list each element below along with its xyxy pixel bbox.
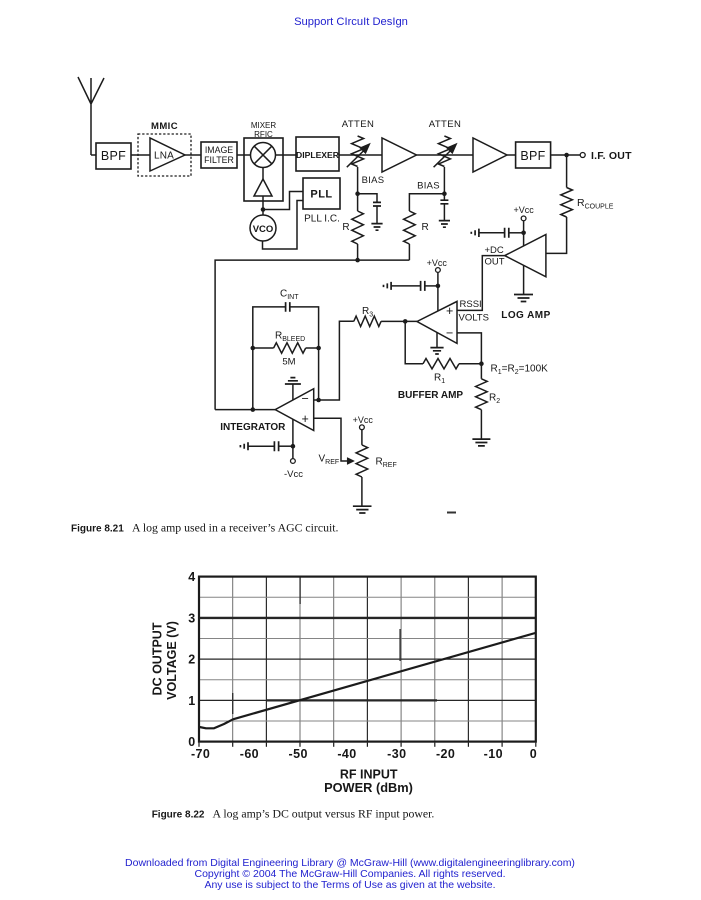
label +DC OUT (485, 245, 505, 267)
svg-text:Figure 8.22: Figure 8.22 (152, 810, 205, 821)
wire +Vcc to buffer amp (437, 272, 439, 311)
op-amp BUFFER AMP (398, 301, 464, 401)
capacitor (integrator bypass) (274, 441, 278, 451)
chart scan artifact strokes (233, 577, 400, 714)
wire mixer to diplexer (276, 154, 297, 156)
wire LO amp to VCO (262, 196, 264, 215)
wire bias node 2 to R 2 (409, 194, 444, 211)
svg-text:Support CIrcuIt DesIgn: Support CIrcuIt DesIgn (294, 16, 408, 28)
resistor R (bias 1) (342, 211, 363, 244)
wire diplexer to amp1 (339, 154, 382, 156)
resistor R (bias 2) (404, 211, 429, 244)
junction inverting input node (316, 398, 321, 403)
svg-text:LOG AMP: LOG AMP (501, 310, 550, 321)
chart x-axis title (324, 768, 413, 795)
wire PLL output to VCO (263, 201, 304, 250)
amplifier LNA (150, 138, 185, 171)
caption figure 8.21 (71, 521, 339, 535)
wire integrator bypass cap to ground (248, 445, 274, 447)
svg-text:BPF: BPF (520, 149, 545, 163)
junction feedback node (479, 361, 484, 366)
ground (integrator, inverted) (285, 378, 301, 384)
wire bias node 1 to R (357, 194, 359, 211)
power +Vcc (buffer amp) (427, 258, 448, 273)
wire +Vcc to log amp (523, 221, 525, 246)
junction +Vcc bypass node (log amp) (521, 231, 526, 236)
junction bias node 1 (355, 191, 360, 196)
svg-text:MMIC: MMIC (151, 121, 178, 132)
antenna (78, 77, 104, 155)
resistor R1 (423, 359, 459, 386)
svg-text:Any use is subject to the Term: Any use is subject to the Terms of Use a… (204, 879, 495, 891)
wire Rref to ground (361, 477, 363, 506)
wire feedback rail (Cint top) (253, 307, 319, 410)
svg-text:VOLTAGE (V): VOLTAGE (V) (165, 621, 179, 700)
scan artifact dash (447, 512, 456, 514)
svg-text:RFIC: RFIC (254, 130, 273, 139)
svg-text:+: + (446, 304, 453, 318)
wire buffer bypass cap to ground (391, 285, 421, 287)
svg-text:OUT: OUT (485, 256, 505, 267)
wire buffer amp to ground (436, 332, 438, 347)
wire amp2 to BPF2 (507, 154, 516, 156)
wire LO node to PLL input (263, 192, 303, 210)
ground (Rref) (353, 506, 372, 513)
junction bias node 2 (442, 191, 447, 196)
svg-text:-Vcc: -Vcc (284, 469, 303, 480)
svg-text:R: R (342, 222, 349, 233)
svg-text:BPF: BPF (101, 149, 126, 163)
wire mixer to LO amp (262, 168, 264, 180)
MIXER RFIC enclosure (244, 121, 283, 201)
chart x-axis labels (191, 747, 537, 761)
potentiometer RREF (356, 445, 397, 477)
chart major horizontal gridlines (199, 618, 536, 701)
wiper arrow into RREF (319, 454, 355, 467)
wire IF node to Rcouple (566, 157, 568, 188)
capacitor (buffer bypass) (421, 281, 425, 291)
wire +Vcc node to bypass cap (509, 232, 524, 234)
svg-text:RSSI: RSSI (460, 299, 482, 310)
op-amp INTEGRATOR (220, 389, 313, 434)
svg-text:PLL: PLL (310, 189, 332, 201)
svg-text:-10: -10 (484, 747, 503, 761)
wire cap to ground (376, 206, 378, 224)
page header running title (294, 16, 408, 28)
wire BPF2 to IF out terminal (551, 154, 581, 156)
wire R1 to feedback node (459, 363, 481, 365)
filter BPF (IF output) (516, 142, 551, 168)
svg-text:Figure 8.21: Figure 8.21 (71, 524, 124, 535)
label PLL I.C. (304, 214, 340, 225)
svg-text:CINT: CINT (280, 289, 299, 302)
wire integrator noninverting input (314, 418, 349, 461)
chart curve: DC output vs RF input (200, 633, 536, 728)
chart minor vertical gridlines (233, 577, 502, 742)
svg-text:ATTEN: ATTEN (429, 119, 461, 130)
svg-text:VOLTS: VOLTS (459, 313, 489, 324)
terminal I.F. OUT (580, 150, 632, 162)
svg-text:-60: -60 (240, 747, 259, 761)
svg-text:-50: -50 (289, 747, 308, 761)
wire image filter to mixer (237, 154, 251, 156)
power +Vcc (log amp) (513, 205, 534, 221)
svg-text:A log amp used in a receiver’s: A log amp used in a receiver’s AGC circu… (132, 521, 339, 535)
op-amp LOG AMP (501, 235, 550, 322)
svg-text:R2: R2 (489, 393, 500, 406)
power +Vcc (Rref) (353, 415, 374, 430)
attenuator ATTEN (second) (429, 119, 461, 167)
resistor R2 (476, 379, 501, 410)
svg-text:RREF: RREF (376, 457, 397, 470)
svg-text:A log amp’s DC output versus R: A log amp’s DC output versus RF input po… (213, 807, 435, 821)
junction Cint rail right (316, 346, 321, 351)
wire log amp output +DC OUT (457, 256, 505, 311)
svg-text:−: − (302, 392, 309, 406)
capacitor (bias 1 bypass) (373, 202, 381, 206)
svg-text:PLL I.C.: PLL I.C. (304, 214, 340, 225)
chart minor horizontal gridlines (199, 597, 536, 721)
wire AGC bus (215, 260, 409, 410)
junction LO node (261, 207, 266, 212)
svg-text:R: R (422, 222, 429, 233)
svg-text:+: + (302, 412, 309, 426)
wire log amp to ground (523, 265, 525, 294)
svg-text:+Vcc: +Vcc (513, 205, 534, 215)
label R1=R2=100K (491, 364, 549, 377)
resistor RCOUPLE (561, 188, 614, 218)
svg-text:RCOUPLE: RCOUPLE (577, 197, 614, 211)
junction buffer output node (403, 319, 408, 324)
svg-text:+DC: +DC (485, 245, 504, 256)
junction Cint rail left (251, 346, 256, 351)
svg-text:ATTEN: ATTEN (342, 119, 374, 130)
PLL U1 (303, 178, 340, 209)
wire antenna to BPF (91, 154, 96, 156)
wire Rcouple to log amp input (546, 217, 567, 253)
wire LNA to image filter (185, 154, 201, 156)
wire buffer inverting input (457, 333, 481, 364)
svg-text:R1: R1 (434, 373, 445, 386)
svg-text:R1=R2=100K: R1=R2=100K (491, 364, 549, 377)
svg-text:INTEGRATOR: INTEGRATOR (220, 422, 286, 433)
svg-text:−: − (446, 326, 453, 340)
chart x-axis ticks (199, 743, 536, 747)
capacitor (log amp bypass) (505, 228, 509, 238)
wire cap 2 to ground (443, 204, 445, 221)
attenuator ATTEN (first) (342, 119, 374, 167)
svg-text:2: 2 (188, 653, 195, 667)
svg-text:4: 4 (188, 570, 195, 584)
svg-text:FILTER: FILTER (204, 155, 234, 165)
wire integrator to -Vcc (292, 419, 294, 458)
wire bias node 2 to cap 2 (443, 194, 445, 201)
svg-text:BUFFER AMP: BUFFER AMP (398, 390, 464, 401)
chart plot border (199, 577, 536, 742)
label BIAS (first) (362, 175, 385, 186)
caption figure 8.22 (152, 807, 435, 821)
svg-text:POWER (dBm): POWER (dBm) (324, 780, 413, 795)
wire -Vcc node to bypass cap (279, 445, 293, 447)
wire Rbleed leads (253, 347, 319, 349)
svg-text:RBLEED: RBLEED (275, 331, 305, 344)
junction AGC bus / R bias 1 (355, 258, 360, 263)
ground (log amp) (514, 295, 533, 302)
junction IF node (564, 153, 569, 158)
capacitor CINT (280, 289, 299, 312)
wire feedback node to R2 (480, 364, 482, 379)
wire integrator inverting input (314, 321, 354, 400)
filter IMAGE FILTER (201, 142, 237, 168)
svg-text:+Vcc: +Vcc (427, 258, 448, 268)
svg-text:-20: -20 (436, 747, 455, 761)
footer line 2 (195, 868, 506, 880)
svg-text:1: 1 (188, 694, 195, 708)
filter BPF (input) (96, 143, 131, 169)
junction -Vcc bypass node (291, 444, 296, 449)
junction +Vcc bypass node (buffer) (436, 284, 441, 289)
wire R 2 to AGC bus (408, 244, 410, 260)
junction integrator output / feedback rail (251, 407, 256, 412)
wire bypass cap to ground (479, 232, 505, 234)
ground (buffer amp) (430, 348, 443, 354)
wire atten1 to bias node (357, 167, 359, 194)
wire BPF to MMIC (131, 154, 150, 156)
mixer (multiplier symbol) (251, 143, 276, 168)
svg-text:LNA: LNA (154, 151, 174, 162)
svg-text:VCO: VCO (253, 224, 274, 235)
wire R to AGC bus (357, 244, 359, 260)
svg-text:DC OUTPUT: DC OUTPUT (151, 622, 165, 695)
ground (bias 2) (439, 221, 450, 228)
ground (R2) (472, 439, 490, 446)
wire output node to R1 (405, 321, 423, 363)
wire buffer output to R3 (381, 320, 417, 322)
LO buffer amplifier (in mixer RFIC) (254, 179, 272, 196)
svg-text:-30: -30 (387, 747, 406, 761)
svg-text:-70: -70 (191, 747, 210, 761)
svg-text:MIXER: MIXER (251, 121, 277, 130)
label BIAS (second) (417, 181, 440, 192)
wire bias node 1 to cap (358, 194, 377, 203)
wire R2 to ground (480, 410, 482, 439)
svg-text:VREF: VREF (319, 454, 340, 467)
svg-text:IMAGE: IMAGE (205, 145, 233, 155)
wire amp1 to atten2 and amp2 (417, 154, 474, 156)
ground (integrator bypass, sideways) (240, 442, 248, 450)
wire integrator output to AGC bus (215, 409, 275, 411)
svg-text:R3: R3 (362, 306, 373, 319)
svg-text:-40: -40 (337, 747, 356, 761)
amplifier (IF amp 2) (473, 138, 507, 172)
resistor RBLEED (274, 331, 306, 368)
chart y-axis title (151, 621, 180, 700)
svg-text:BIAS: BIAS (362, 175, 385, 186)
wire integrator to top ground (292, 384, 294, 400)
oscillator VCO (250, 215, 276, 241)
capacitor (bias 2 bypass) (440, 200, 448, 204)
footer line 1 (125, 857, 575, 869)
footer line 3 (204, 879, 495, 891)
chart major vertical gridlines (266, 577, 468, 742)
svg-text:5M: 5M (282, 357, 295, 368)
ground (log amp bypass, sideways) (471, 229, 479, 237)
wire +Vcc node to bypass cap (buffer) (425, 285, 438, 287)
svg-text:3: 3 (188, 612, 195, 626)
svg-text:+Vcc: +Vcc (353, 415, 374, 425)
svg-text:DIPLEXER: DIPLEXER (296, 150, 340, 160)
ground (buffer bypass, sideways) (384, 282, 392, 290)
DIPLEXER (296, 137, 340, 171)
power -Vcc terminal (284, 459, 303, 480)
resistor R3 (354, 306, 381, 327)
svg-text:BIAS: BIAS (417, 181, 440, 192)
amplifier (IF amp 1) (382, 138, 417, 172)
svg-text:0: 0 (530, 747, 537, 761)
svg-text:I.F. OUT: I.F. OUT (591, 150, 632, 162)
wire +Vcc to Rref (361, 430, 363, 445)
MMIC dashed enclosure (138, 121, 191, 176)
chart y-axis labels (188, 570, 195, 749)
wire atten2 to bias node 2 (443, 167, 445, 194)
label RSSI VOLTS (459, 299, 489, 324)
ground (bias 1) (371, 224, 382, 231)
